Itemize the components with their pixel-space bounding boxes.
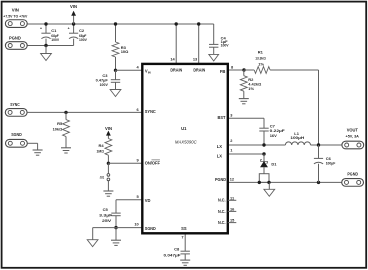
svg-text:10: 10	[134, 222, 138, 227]
svg-text:SGND: SGND	[145, 226, 156, 231]
svg-text:R4: R4	[98, 143, 104, 148]
svg-text:PGND: PGND	[347, 172, 358, 177]
svg-text:10kΩ: 10kΩ	[53, 126, 63, 131]
svg-text:VOUT: VOUT	[347, 127, 359, 132]
svg-text:ON/OFF: ON/OFF	[145, 161, 161, 166]
svg-text:R1: R1	[258, 49, 264, 54]
svg-text:+5V, 3A: +5V, 3A	[346, 133, 359, 138]
svg-text:FB: FB	[220, 69, 226, 74]
svg-text:VIN: VIN	[12, 7, 19, 12]
svg-text:100µH: 100µH	[290, 135, 304, 140]
svg-text:N.C.: N.C.	[218, 209, 226, 214]
svg-text:DRAIN: DRAIN	[193, 67, 205, 72]
svg-text:C8: C8	[174, 247, 180, 252]
svg-text:U1: U1	[181, 126, 187, 131]
svg-text:VIN: VIN	[70, 4, 77, 9]
svg-text:13.3kΩ: 13.3kΩ	[255, 56, 266, 61]
svg-text:BST: BST	[218, 115, 226, 120]
svg-text:100V: 100V	[100, 82, 108, 87]
svg-text:+7.5V TO +76V: +7.5V TO +76V	[3, 15, 28, 19]
svg-text:N.C.: N.C.	[218, 198, 226, 203]
svg-text:25V: 25V	[102, 218, 112, 223]
svg-text:C5: C5	[103, 207, 109, 212]
svg-text:R5: R5	[57, 121, 63, 126]
svg-text:0.047µF: 0.047µF	[164, 253, 182, 258]
svg-text:1MΩ: 1MΩ	[97, 148, 105, 153]
svg-text:N.C.: N.C.	[218, 220, 226, 225]
svg-text:1%: 1%	[248, 86, 254, 91]
svg-text:DRAIN: DRAIN	[170, 67, 182, 72]
svg-text:VIN: VIN	[105, 126, 112, 131]
svg-text:1%: 1%	[258, 61, 264, 66]
svg-text:IN: IN	[148, 70, 151, 74]
svg-text:JU1: JU1	[100, 175, 105, 180]
svg-text:MAX5090C: MAX5090C	[175, 140, 198, 145]
svg-text:10Ω: 10Ω	[121, 49, 129, 54]
svg-text:SGND: SGND	[11, 132, 22, 137]
svg-text:+: +	[40, 27, 42, 31]
svg-text:100V: 100V	[79, 37, 87, 42]
svg-text:SS: SS	[181, 226, 187, 231]
svg-text:D1: D1	[271, 162, 277, 167]
svg-text:7: 7	[181, 235, 183, 240]
svg-text:100V: 100V	[51, 37, 59, 42]
svg-text:SYNC: SYNC	[10, 102, 20, 107]
svg-text:+: +	[68, 27, 70, 31]
svg-text:LX: LX	[217, 144, 223, 149]
svg-text:SYNC: SYNC	[145, 109, 156, 114]
svg-text:PGND: PGND	[9, 36, 21, 41]
svg-text:LX: LX	[217, 153, 223, 158]
svg-text:VD: VD	[145, 198, 151, 203]
svg-text:16V: 16V	[270, 133, 277, 138]
svg-text:PGND: PGND	[215, 177, 226, 182]
svg-text:3.3µF: 3.3µF	[99, 213, 113, 218]
svg-text:100V: 100V	[221, 43, 229, 48]
svg-text:100µF: 100µF	[326, 161, 336, 166]
